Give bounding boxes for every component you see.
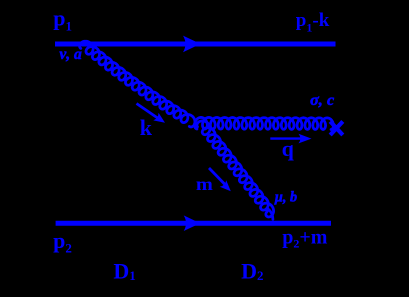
momentum arrow m [209, 168, 234, 195]
arrowhead on bottom fermion line [184, 215, 201, 231]
fermion line bottom (p2 to p2+m) [56, 221, 331, 226]
svg-text:μ, b: μ, b [274, 189, 297, 205]
svg-text:m: m [196, 174, 213, 194]
gluon propagator k (top vertex to 3-gluon vertex) [80, 41, 195, 127]
svg-text:p1-k: p1-k [296, 10, 330, 34]
svg-text:q: q [282, 136, 295, 161]
svg-text:σ, c: σ, c [310, 91, 334, 109]
gluon m tail arc to bottom vertex [268, 209, 273, 219]
momentum arrow q [270, 134, 311, 144]
svg-text:k: k [140, 115, 153, 140]
svg-text:p1: p1 [53, 6, 72, 34]
cross (crossed gluon end) [330, 121, 343, 135]
momentum arrow k [137, 104, 168, 127]
svg-text:p2+m: p2+m [282, 227, 328, 251]
gluon propagator m (3-gluon vertex to bottom vertex) [197, 121, 274, 217]
gluon q (3-gluon vertex to crossed end) [195, 117, 334, 129]
arrowhead on top fermion line [183, 36, 201, 53]
svg-text:p2: p2 [53, 228, 72, 256]
svg-text:D1: D1 [113, 258, 135, 283]
svg-text:ν, a: ν, a [59, 46, 82, 63]
svg-text:D2: D2 [241, 258, 263, 283]
fermion line top (p1 to p1-k) [55, 42, 336, 47]
